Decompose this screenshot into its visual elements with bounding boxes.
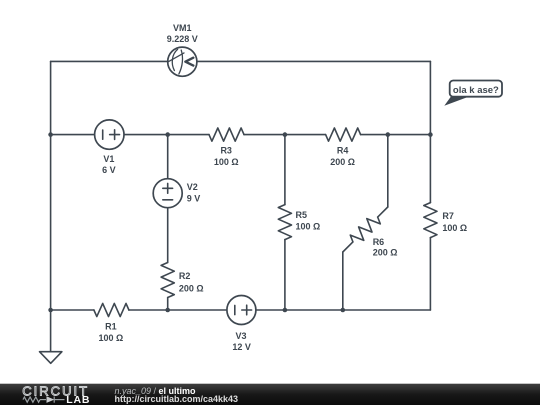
svg-text:V1: V1 [103, 154, 114, 164]
svg-text:12 V: 12 V [232, 342, 251, 352]
svg-text:R3: R3 [220, 145, 232, 155]
svg-text:200 Ω: 200 Ω [330, 157, 355, 167]
svg-text:ola k ase?: ola k ase? [453, 85, 499, 96]
svg-text:http://circuitlab.com/ca4kk43: http://circuitlab.com/ca4kk43 [115, 394, 239, 404]
svg-text:R5: R5 [296, 210, 308, 220]
svg-text:R6: R6 [373, 237, 385, 247]
svg-text:R1: R1 [105, 321, 117, 331]
svg-text:LAB: LAB [66, 394, 90, 405]
svg-text:R7: R7 [442, 211, 454, 221]
svg-text:9 V: 9 V [187, 194, 201, 204]
svg-text:100 Ω: 100 Ω [296, 222, 321, 232]
svg-text:100 Ω: 100 Ω [214, 157, 239, 167]
svg-text:V2: V2 [187, 182, 198, 192]
svg-text:V3: V3 [235, 331, 246, 341]
svg-text:200 Ω: 200 Ω [373, 248, 398, 258]
svg-text:200 Ω: 200 Ω [179, 284, 204, 294]
svg-text:6 V: 6 V [102, 165, 116, 175]
svg-text:100 Ω: 100 Ω [442, 223, 467, 233]
svg-text:VM1: VM1 [173, 23, 192, 33]
svg-text:9.228 V: 9.228 V [167, 34, 198, 44]
svg-text:100 Ω: 100 Ω [99, 333, 124, 343]
svg-text:R2: R2 [179, 271, 191, 281]
svg-text:R4: R4 [337, 145, 349, 155]
